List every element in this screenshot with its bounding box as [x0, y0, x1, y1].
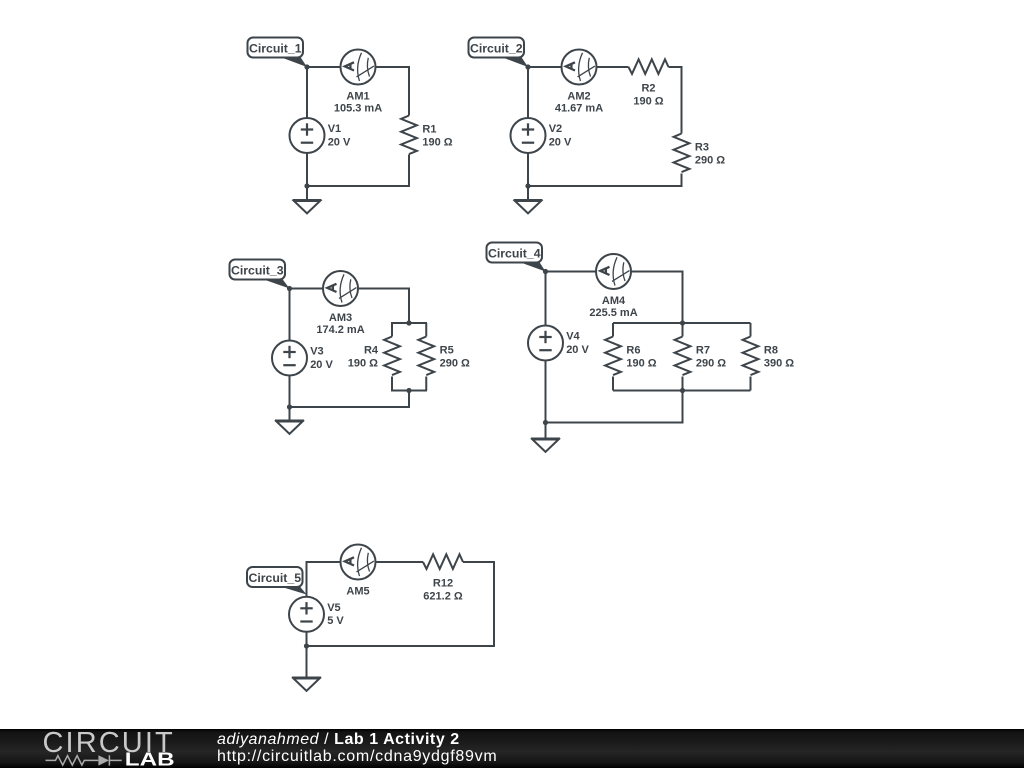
junction	[304, 643, 309, 648]
svg-text:225.5 mA: 225.5 mA	[589, 307, 637, 319]
wire	[306, 561, 308, 597]
wire	[750, 377, 752, 391]
svg-text:5 V: 5 V	[327, 615, 344, 627]
node label Circuit_1	[248, 38, 308, 68]
svg-text:190 Ω: 190 Ω	[633, 95, 663, 107]
wire	[408, 391, 410, 408]
label R12	[423, 577, 463, 602]
svg-text:LAB: LAB	[125, 748, 175, 768]
label V1	[328, 123, 351, 148]
svg-text:R7: R7	[696, 345, 710, 357]
svg-text:390 Ω: 390 Ω	[764, 358, 794, 370]
svg-text:290 Ω: 290 Ω	[695, 155, 725, 167]
wire	[546, 271, 597, 273]
wire	[463, 561, 494, 563]
resistor R4	[384, 337, 400, 376]
label R6	[626, 345, 656, 370]
ammeter AM1	[341, 50, 376, 85]
label V3	[310, 346, 333, 371]
svg-text:R5: R5	[440, 345, 454, 357]
svg-text:AM2: AM2	[567, 90, 590, 102]
wire	[669, 66, 683, 68]
CircuitLab logo	[0, 729, 200, 768]
node label Circuit_3	[230, 260, 290, 289]
resistor R7	[675, 337, 691, 376]
svg-text:R2: R2	[641, 82, 655, 94]
wire	[682, 271, 684, 324]
svg-text:R6: R6	[626, 345, 640, 357]
svg-text:V2: V2	[549, 123, 562, 135]
wire	[306, 67, 308, 118]
ground	[275, 421, 304, 434]
svg-text:R12: R12	[433, 577, 453, 589]
node label Circuit_5	[247, 567, 307, 595]
svg-text:AM4: AM4	[602, 295, 626, 307]
junction (Circuit_2 node)	[525, 64, 530, 69]
svg-text:621.2 Ω: 621.2 Ω	[423, 590, 463, 602]
wire	[391, 390, 427, 392]
svg-text:V5: V5	[327, 602, 340, 614]
wire	[391, 377, 393, 391]
wire	[750, 323, 752, 337]
wire	[307, 561, 341, 563]
svg-text:174.2 mA: 174.2 mA	[316, 324, 364, 336]
wire	[527, 67, 529, 118]
ammeter AM3	[323, 271, 358, 306]
label R5	[440, 345, 470, 370]
node label Circuit_4	[487, 243, 546, 272]
junction	[543, 420, 548, 425]
wire	[306, 153, 308, 200]
wire	[597, 66, 629, 68]
svg-text:41.67 mA: 41.67 mA	[555, 103, 603, 115]
svg-text:R8: R8	[764, 345, 778, 357]
wire	[306, 645, 496, 647]
junction (Circuit_4 node)	[543, 269, 548, 274]
ammeter AM5	[341, 545, 376, 580]
wire	[613, 390, 751, 392]
wire	[306, 185, 410, 187]
svg-text:190 Ω: 190 Ω	[626, 358, 656, 370]
wire	[682, 377, 684, 391]
wire	[408, 66, 410, 116]
wire	[290, 288, 324, 290]
resistor R3	[674, 134, 690, 173]
wire	[528, 66, 562, 68]
wire	[391, 323, 393, 337]
voltage source V4	[528, 326, 563, 361]
wire	[289, 376, 291, 421]
label R8	[764, 345, 794, 370]
wire	[681, 174, 683, 188]
wire	[681, 66, 683, 134]
svg-text:190 Ω: 190 Ω	[348, 358, 378, 370]
wire	[307, 66, 341, 68]
ground	[293, 200, 322, 213]
label AM1	[334, 90, 382, 114]
voltage source V5	[289, 597, 324, 632]
label AM2	[555, 90, 603, 114]
label V4	[566, 331, 589, 356]
junction	[304, 183, 309, 188]
resistor R6	[605, 337, 621, 376]
wire	[612, 377, 614, 391]
resistor R1	[401, 116, 417, 155]
junction (parallel top)	[406, 320, 411, 325]
svg-text:Circuit_3: Circuit_3	[231, 263, 284, 277]
label R3	[695, 142, 725, 167]
wire	[425, 377, 427, 391]
wire	[306, 632, 308, 678]
wire	[613, 322, 751, 324]
svg-text:V4: V4	[566, 331, 580, 343]
wire	[376, 66, 410, 68]
svg-text:Circuit_1: Circuit_1	[249, 41, 302, 55]
voltage source V3	[272, 341, 307, 376]
label R2	[633, 82, 663, 107]
label AM3	[316, 312, 364, 336]
resistor R5	[418, 337, 434, 376]
svg-text:Circuit_4: Circuit_4	[488, 246, 541, 260]
svg-text:R4: R4	[364, 345, 379, 357]
junction	[525, 183, 530, 188]
resistor R2	[629, 59, 669, 74]
voltage source V1	[290, 118, 325, 153]
label AM4	[589, 295, 637, 319]
junction (parallel top)	[680, 320, 685, 325]
wire	[682, 323, 684, 337]
svg-text:20 V: 20 V	[566, 344, 589, 356]
wire	[631, 271, 683, 273]
label R1	[422, 124, 452, 149]
ground	[531, 439, 560, 452]
ammeter AM2	[562, 50, 597, 85]
wire	[408, 155, 410, 188]
svg-text:R3: R3	[695, 142, 709, 154]
svg-text:290 Ω: 290 Ω	[696, 358, 726, 370]
svg-text:190 Ω: 190 Ω	[422, 137, 452, 149]
junction (Circuit_1 node)	[304, 64, 309, 69]
wire	[527, 153, 529, 200]
node label Circuit_2	[469, 38, 529, 68]
svg-text:AM5: AM5	[346, 585, 369, 597]
label R4	[348, 345, 379, 370]
svg-text:105.3 mA: 105.3 mA	[334, 103, 382, 115]
wire	[289, 406, 411, 408]
junction	[287, 404, 292, 409]
wire	[425, 323, 427, 337]
footer bar	[0, 729, 1024, 768]
wire	[545, 422, 684, 424]
junction (parallel bottom)	[680, 388, 685, 393]
label AM5	[346, 585, 369, 597]
svg-text:20 V: 20 V	[549, 136, 572, 148]
wire	[289, 289, 291, 341]
wire	[545, 272, 547, 326]
svg-text:AM1: AM1	[346, 90, 369, 102]
label R7	[696, 345, 726, 370]
wire	[493, 561, 495, 647]
label V2	[549, 123, 572, 148]
label V5	[327, 602, 344, 627]
svg-text:20 V: 20 V	[310, 359, 333, 371]
wire	[545, 361, 547, 439]
ground	[514, 200, 543, 213]
svg-text:Circuit_2: Circuit_2	[470, 41, 523, 55]
wire	[408, 288, 410, 324]
svg-text:AM3: AM3	[329, 312, 352, 324]
wire	[682, 391, 684, 423]
ammeter AM4	[596, 254, 631, 289]
svg-text:R1: R1	[422, 124, 436, 136]
wire	[527, 185, 683, 187]
junction (parallel bottom)	[406, 388, 411, 393]
svg-text:Circuit_5: Circuit_5	[248, 571, 301, 585]
resistor R12	[423, 554, 463, 569]
svg-text:V1: V1	[328, 123, 341, 135]
svg-text:20 V: 20 V	[328, 136, 351, 148]
footer title text	[217, 731, 497, 766]
junction (Circuit_3 node)	[287, 286, 292, 291]
voltage source V2	[511, 118, 546, 153]
wire	[612, 323, 614, 337]
wire	[358, 288, 409, 290]
ground	[292, 678, 321, 691]
svg-text:V3: V3	[310, 346, 323, 358]
wire	[391, 322, 427, 324]
svg-text:290 Ω: 290 Ω	[440, 358, 470, 370]
resistor R8	[743, 337, 759, 376]
wire	[376, 561, 424, 563]
